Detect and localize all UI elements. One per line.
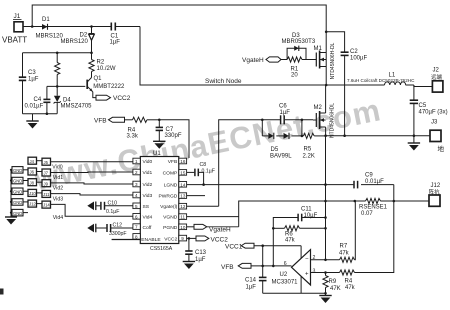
svg-text:16: 16 — [180, 159, 186, 164]
svg-text:Vid4: Vid4 — [143, 215, 153, 221]
svg-text:VgateH: VgateH — [242, 57, 264, 64]
svg-text:MMSZ4705: MMSZ4705 — [61, 104, 93, 110]
wire Q1 emitter to VCC2 flag — [93, 92, 96, 98]
capacitor C7 — [156, 120, 182, 139]
wire PGND rail — [326, 135, 430, 137]
wire Vid3 — [51, 194, 133, 195]
svg-text:D5: D5 — [271, 147, 279, 153]
svg-text:J6: J6 — [30, 170, 35, 175]
wire Vgate(l) to riser — [187, 205, 219, 207]
svg-text:RSENSE1: RSENSE1 — [359, 205, 388, 211]
wire — [381, 200, 430, 202]
wire VGND to riser — [187, 216, 239, 218]
wire C1 corner down to switch node — [140, 27, 385, 86]
connector block: GND bus — [10, 170, 12, 217]
capacitor C3 — [19, 70, 39, 83]
svg-text:VCC2: VCC2 — [211, 236, 229, 243]
capacitor C1 — [110, 23, 121, 46]
flag VCC2 (Q1) — [96, 95, 131, 102]
wire C3 branch — [22, 53, 24, 77]
svg-text:PWRGD: PWRGD — [159, 194, 178, 200]
junction — [324, 216, 327, 219]
svg-text:1µF: 1µF — [110, 40, 121, 46]
junction — [261, 244, 264, 247]
wire C2 branch — [326, 32, 344, 52]
svg-text:J2: J2 — [433, 68, 440, 74]
svg-text:1µF: 1µF — [195, 257, 206, 263]
connector J12 — [429, 183, 441, 206]
svg-text:阵抗: 阵抗 — [429, 188, 441, 196]
wire — [276, 135, 283, 137]
capacitor C6 — [279, 104, 290, 125]
capacitor C2 — [341, 49, 368, 62]
svg-text:BAV99L: BAV99L — [270, 154, 292, 160]
svg-text:GND: GND — [13, 179, 22, 184]
diode D5a — [268, 133, 274, 139]
svg-text:MBRS120: MBRS120 — [36, 34, 64, 40]
svg-text:1µF: 1µF — [28, 77, 39, 83]
svg-text:C14: C14 — [245, 277, 257, 283]
wire sense row — [326, 200, 366, 202]
IC U1 CS5165A — [140, 151, 179, 252]
svg-text:M1: M1 — [314, 46, 323, 52]
junction — [10, 169, 12, 171]
wire pin2 row + resistor R7 — [311, 201, 356, 262]
junction — [56, 85, 59, 88]
svg-text:C8: C8 — [200, 162, 207, 168]
svg-text:LGND: LGND — [164, 182, 178, 188]
wire LGND row — [187, 184, 354, 186]
svg-text:R7: R7 — [340, 244, 348, 250]
wire pin3 row + resistor R4 (47k) — [311, 201, 394, 291]
junction — [324, 271, 327, 274]
flag VFB (bottom) — [221, 263, 292, 271]
svg-text:C6: C6 — [279, 104, 287, 110]
wire Vid0 — [51, 161, 133, 163]
svg-text:1: 1 — [135, 159, 138, 164]
svg-text:Vid0: Vid0 — [52, 165, 62, 171]
resistor R3 (unlabeled) — [55, 53, 60, 87]
svg-text:2: 2 — [135, 170, 138, 175]
resistor R9 — [323, 273, 341, 296]
ground arrow (C10) — [87, 202, 96, 211]
junction — [202, 183, 205, 186]
svg-text:47K: 47K — [330, 286, 341, 292]
ground (VID bus) — [5, 217, 17, 225]
svg-text:VCC2: VCC2 — [113, 95, 131, 102]
wire flag to R1 — [281, 59, 287, 61]
junction — [272, 265, 275, 268]
svg-text:Vid2: Vid2 — [143, 182, 153, 188]
wire — [46, 103, 48, 114]
junction — [46, 112, 49, 115]
capacitor C13 (VCC2 decoupling) — [185, 238, 206, 263]
svg-text:NTD45N06HDL: NTD45N06HDL — [330, 103, 336, 138]
svg-text:U2: U2 — [280, 272, 288, 278]
junction — [324, 183, 327, 186]
wire PGND sense column — [325, 136, 327, 260]
junction — [301, 119, 304, 122]
junction — [393, 200, 396, 203]
svg-text:0.07: 0.07 — [361, 211, 373, 217]
svg-text:J7: J7 — [44, 171, 49, 176]
junction — [325, 31, 328, 34]
svg-text:J14: J14 — [43, 203, 50, 208]
svg-text:VCC2: VCC2 — [164, 236, 177, 242]
svg-text:14: 14 — [180, 182, 186, 187]
mosfet M2 — [313, 85, 326, 136]
svg-text:R5: R5 — [304, 147, 312, 153]
svg-text:远端: 远端 — [431, 73, 443, 81]
svg-text:Vid3: Vid3 — [143, 193, 153, 199]
wire to pin16 — [159, 120, 189, 158]
svg-text:J4: J4 — [30, 159, 35, 164]
svg-text:10./2W: 10./2W — [97, 66, 116, 72]
wire — [262, 135, 268, 137]
svg-text:地: 地 — [438, 144, 445, 153]
svg-text:Vid0: Vid0 — [143, 159, 153, 165]
svg-text:NTD45N06H-DL: NTD45N06H-DL — [330, 42, 336, 79]
svg-text:CS5165A: CS5165A — [150, 246, 173, 252]
inductor L1 — [385, 82, 406, 85]
wire top rail — [32, 5, 326, 52]
zener D4 — [54, 86, 93, 113]
junction — [324, 200, 327, 203]
capacitor C4 — [25, 97, 51, 110]
flag VCC1 — [225, 243, 301, 250]
svg-text:U1: U1 — [153, 151, 161, 157]
resistor RSENSE1 — [359, 198, 388, 217]
svg-text:ENABLE: ENABLE — [141, 237, 161, 243]
wire — [301, 120, 303, 136]
wire Vid2 — [51, 183, 133, 184]
svg-text:VgateH: VgateH — [209, 227, 231, 234]
junction — [354, 200, 357, 203]
svg-text:6: 6 — [284, 261, 287, 267]
svg-text:C12: C12 — [113, 222, 123, 228]
svg-text:MBR0530T3: MBR0530T3 — [282, 39, 316, 45]
wire op-amp V- stub to rail — [300, 277, 302, 294]
wire — [361, 184, 394, 186]
wire bottom bus left — [23, 113, 58, 115]
svg-text:VFB: VFB — [221, 264, 234, 271]
svg-text:GND: GND — [13, 189, 22, 194]
svg-text:D2: D2 — [80, 33, 88, 39]
svg-text:10: 10 — [180, 225, 186, 230]
wire D2 branch — [91, 27, 93, 35]
svg-text:J12: J12 — [431, 183, 441, 189]
junction — [56, 52, 59, 55]
svg-text:VBATT: VBATT — [2, 36, 27, 45]
connector J5 J7 J9 J11 J14 — [37, 158, 51, 208]
svg-text:11: 11 — [180, 215, 185, 220]
svg-text:47k: 47k — [339, 251, 350, 257]
svg-text:0.01µF: 0.01µF — [365, 179, 384, 185]
svg-text:47k: 47k — [285, 238, 296, 244]
ground (output) — [408, 136, 420, 151]
svg-text:C10: C10 — [108, 201, 118, 207]
J1 connector — [2, 13, 27, 45]
svg-text:VGND: VGND — [163, 215, 178, 221]
capacitor C12 — [96, 222, 133, 237]
wire D5 branch — [261, 120, 263, 136]
svg-text:8: 8 — [135, 234, 138, 239]
svg-text:MBRS120: MBRS120 — [61, 39, 89, 45]
connector J3 — [430, 120, 445, 154]
svg-text:0.1µF: 0.1µF — [106, 209, 119, 215]
wire VBATT main — [23, 26, 112, 28]
svg-text:J11: J11 — [43, 192, 50, 197]
ground (C13) — [183, 262, 195, 270]
svg-text:J8: J8 — [30, 180, 35, 185]
IC pin labels — [141, 159, 161, 243]
svg-text:9: 9 — [181, 236, 184, 241]
svg-text:C11: C11 — [301, 206, 312, 212]
svg-text:R2: R2 — [97, 60, 105, 66]
svg-text:M2: M2 — [314, 105, 323, 111]
ground (op-amp) — [319, 296, 331, 304]
wire bottom rail — [263, 292, 326, 294]
resistor R2 — [89, 53, 116, 78]
op-amp U2 MC33071 (pointing left) — [272, 250, 316, 286]
svg-text:C5: C5 — [419, 103, 427, 109]
ground (C7) — [153, 130, 165, 148]
node A junction D2 — [90, 25, 93, 28]
junction — [261, 265, 264, 268]
junction — [324, 292, 327, 295]
wire — [344, 56, 346, 136]
wire — [285, 119, 313, 121]
watermark — [30, 92, 384, 197]
svg-text:C9: C9 — [365, 173, 373, 179]
IC pin boxes left — [133, 158, 140, 239]
diode D2 — [61, 33, 95, 46]
IC pin boxes right — [179, 158, 187, 241]
svg-text:J12: J12 — [29, 202, 36, 207]
wire Q1 base row — [47, 85, 85, 87]
svg-text:20: 20 — [291, 73, 298, 79]
svg-text:Vid2: Vid2 — [53, 186, 63, 192]
diode D1 — [36, 17, 64, 40]
node dot at top riser — [31, 25, 34, 28]
wire PWRGD stub — [187, 195, 205, 197]
flag VCC2 (pin9) — [187, 236, 229, 243]
junction — [301, 135, 304, 138]
diode D3 + R1 parallel branch — [287, 48, 306, 59]
svg-text:C13: C13 — [195, 250, 207, 256]
feedback network left riser — [273, 218, 297, 266]
svg-text:−: − — [305, 257, 309, 263]
svg-text:10µF: 10µF — [304, 213, 318, 219]
ground arrow (C12) — [87, 224, 96, 233]
junction — [324, 134, 327, 137]
capacitor C9 — [354, 173, 384, 189]
flag VgateH (top) — [242, 57, 281, 64]
resistor R5 — [303, 133, 326, 159]
wire Vid1 — [51, 171, 133, 174]
svg-text:PGND: PGND — [163, 225, 178, 231]
wire — [91, 41, 93, 53]
junction — [90, 52, 93, 55]
svg-text:13: 13 — [180, 194, 186, 199]
svg-text:Switch Node: Switch Node — [205, 78, 242, 85]
svg-text:C3: C3 — [28, 70, 36, 76]
wire — [22, 81, 24, 114]
mosfet M1 — [313, 51, 326, 86]
svg-text:GND: GND — [13, 200, 22, 205]
svg-text:Vid1: Vid1 — [143, 170, 153, 176]
capacitor C8 (COMP to LGND) — [187, 162, 215, 185]
svg-text:Vid1: Vid1 — [53, 175, 63, 181]
svg-text:MC33071: MC33071 — [272, 280, 299, 286]
junction — [343, 134, 346, 137]
svg-text:J9: J9 — [44, 181, 49, 186]
svg-text:COMP: COMP — [163, 170, 178, 176]
wire switch node right of L1 — [406, 84, 414, 86]
svg-text:3: 3 — [135, 182, 138, 187]
svg-text:Q1: Q1 — [94, 76, 103, 82]
flag VgateH (pin10) — [187, 224, 239, 233]
svg-text:GND: GND — [13, 168, 22, 173]
svg-text:C4: C4 — [34, 97, 42, 103]
svg-text:VCC1: VCC1 — [225, 243, 243, 250]
svg-text:C2: C2 — [350, 49, 358, 55]
svg-text:15: 15 — [180, 170, 186, 175]
resistor R1 — [287, 57, 313, 79]
svg-text:4: 4 — [135, 193, 138, 198]
svg-text:0.01µF: 0.01µF — [25, 104, 44, 110]
wire VgateL riser and gate row — [219, 120, 280, 206]
svg-text:2.2K: 2.2K — [303, 154, 315, 160]
svg-text:+: + — [305, 272, 309, 278]
svg-text:3300pF: 3300pF — [109, 231, 127, 237]
capacitor C5 — [410, 100, 448, 136]
capacitor C10 — [96, 201, 133, 215]
svg-text:100µF: 100µF — [350, 56, 367, 62]
wire C9 corner down — [393, 185, 395, 201]
svg-text:12: 12 — [180, 204, 186, 209]
transistor Q1 — [87, 76, 125, 92]
wire to J2 — [414, 85, 433, 87]
svg-text:6: 6 — [135, 214, 138, 219]
wire C4 branch — [46, 86, 48, 99]
svg-text:J1: J1 — [14, 13, 21, 20]
junction — [324, 259, 327, 262]
svg-text:Vid4: Vid4 — [53, 215, 63, 221]
junction — [158, 119, 161, 122]
svg-text:470µF (3x): 470µF (3x) — [419, 110, 448, 116]
diode D5b — [270, 133, 292, 160]
ground (left input) — [26, 114, 38, 129]
svg-text:J10: J10 — [29, 191, 36, 196]
connector J4 J6 J8 J10 J12 — [28, 157, 37, 207]
svg-text:47k: 47k — [345, 285, 356, 291]
svg-text:D1: D1 — [42, 17, 50, 23]
svg-text:7.6uH Coilcraft DC5022P-762HC: 7.6uH Coilcraft DC5022P-762HC — [347, 78, 415, 83]
svg-text:5: 5 — [135, 204, 138, 209]
wire riser x238.7 (VGND net) — [239, 201, 326, 227]
svg-text:0.1µF: 0.1µF — [202, 169, 215, 175]
junction — [413, 134, 416, 137]
svg-text:3.3k: 3.3k — [127, 134, 139, 140]
flag VFB (top) — [94, 117, 125, 124]
svg-text:J3: J3 — [431, 120, 438, 126]
svg-text:MMBT2222: MMBT2222 — [93, 84, 125, 90]
corner mark bottom-left — [0, 289, 4, 295]
svg-text:GND: GND — [13, 211, 22, 216]
svg-text:Vid3: Vid3 — [53, 196, 63, 202]
svg-text:Coff: Coff — [143, 225, 153, 231]
svg-text:VFB: VFB — [94, 118, 107, 125]
wire upper-left bus y52.8 — [23, 52, 92, 54]
resistor R6 — [273, 226, 327, 244]
svg-text:J5: J5 — [44, 160, 49, 165]
connector J2 — [431, 68, 443, 93]
svg-text:R9: R9 — [329, 279, 337, 285]
wire ENABLE stub — [112, 239, 141, 241]
wire op-amp V+ stub (VCC1) — [300, 246, 302, 259]
junction — [272, 227, 275, 230]
resistor R4 3.3k — [125, 117, 160, 139]
svg-text:3: 3 — [313, 268, 316, 274]
svg-text:330pF: 330pF — [165, 133, 182, 139]
svg-text:R4: R4 — [345, 279, 353, 285]
wire — [292, 135, 304, 137]
svg-text:D4: D4 — [63, 97, 71, 103]
svg-text:Vgate(l): Vgate(l) — [160, 204, 177, 210]
capacitor C14 — [245, 246, 267, 294]
GND pin boxes — [11, 167, 28, 216]
capacitor C11 — [298, 206, 325, 221]
svg-text:VFB: VFB — [168, 159, 178, 165]
junction — [261, 119, 264, 122]
svg-text:1µF: 1µF — [246, 284, 257, 290]
node switch-M1 junction — [325, 84, 328, 87]
svg-text:1µF: 1µF — [280, 110, 291, 116]
wire Vid4 (jog to pin 6) — [51, 204, 133, 216]
svg-text:7: 7 — [135, 225, 138, 230]
svg-text:SS: SS — [143, 204, 150, 210]
